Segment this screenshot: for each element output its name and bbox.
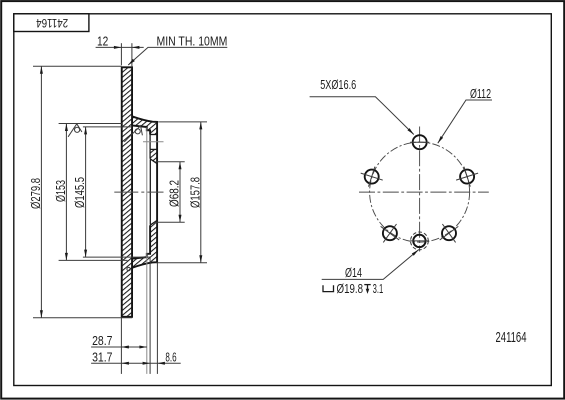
center hole bore silhouette — [149, 160, 151, 225]
center hole chamfer top — [150, 159, 157, 164]
bottom extension line ring face — [146, 128, 148, 374]
svg-text:Ø145.5: Ø145.5 — [72, 177, 87, 208]
hatch fill flange between bolt hole and center hole — [150, 149, 157, 163]
title box — [14, 14, 89, 32]
dim dia145.5 extension lines — [83, 126, 132, 128]
dim dia68.2 extension lines — [156, 161, 185, 163]
svg-text:241164: 241164 — [36, 16, 68, 30]
dim dia153 extension lines — [59, 123, 122, 125]
dim dia157.8 line — [200, 122, 202, 263]
bolt hole in flange bottom edge — [150, 148, 157, 150]
hat cone top underside and ring step — [132, 125, 150, 134]
hat cone bottom underside and ring step — [132, 225, 150, 259]
centerline of disc axis — [114, 191, 163, 193]
dim dia279.8 extension lines — [33, 65, 122, 67]
leader dia112 — [438, 100, 492, 143]
dim 31.7 and 8.6 line — [91, 362, 181, 364]
svg-text:Ø157.8: Ø157.8 — [187, 177, 202, 208]
extra hole dia14 — [410, 232, 429, 250]
counterbore symbol — [323, 285, 334, 291]
bottom extension line disc face — [120, 318, 122, 374]
MIN TH leader — [128, 47, 227, 65]
dim dia153 line — [65, 124, 67, 261]
bolt hole upper left — [361, 167, 383, 187]
bolt hole silhouette near wall — [149, 135, 151, 150]
leader 5X dia16.6 — [310, 97, 414, 135]
surface finish symbol on cone underside — [124, 126, 142, 142]
svg-text:8.6: 8.6 — [165, 350, 176, 365]
bottom extension line flange inner face — [149, 258, 151, 374]
svg-text:Ø153: Ø153 — [53, 180, 68, 202]
bolt hole in flange top edge — [150, 134, 157, 136]
svg-text:Ø14: Ø14 — [345, 265, 362, 280]
svg-text:Ø19.8: Ø19.8 — [337, 281, 364, 296]
svg-text:MIN TH. 10MM: MIN TH. 10MM — [157, 34, 228, 49]
horizontal centerline — [359, 191, 489, 193]
depth symbol — [364, 285, 370, 291]
hatch fill flange lower and bottom cone — [132, 220, 157, 268]
bolt hole lower right — [440, 224, 459, 242]
vertical centerline — [419, 127, 421, 252]
dim 28.7 line — [91, 346, 147, 348]
disc friction ring section outline — [122, 67, 132, 316]
svg-text:241164: 241164 — [496, 329, 527, 346]
surface finish symbol on dia153 line — [68, 124, 82, 137]
hatch fill disc bar — [122, 67, 132, 316]
svg-text:31.7: 31.7 — [92, 350, 112, 365]
small radius detail circle at bottom cone junction — [127, 267, 130, 270]
svg-text:5XØ16.6: 5XØ16.6 — [320, 77, 356, 92]
hat cone outer profile and flange outer face — [132, 116, 157, 267]
dim 12 extension lines — [120, 43, 122, 65]
bottom extension line flange outer face — [156, 263, 158, 374]
svg-text:Ø112: Ø112 — [470, 86, 491, 101]
center hole chamfer bottom — [150, 220, 157, 225]
hatch fill top cone and flange upper — [132, 116, 157, 134]
svg-text:3.1: 3.1 — [373, 281, 384, 296]
dim dia157.8 extension lines — [158, 121, 207, 123]
flange inner face segment above center hole — [149, 149, 151, 158]
dim 12 line — [96, 46, 144, 48]
bolt circle line in section — [143, 141, 164, 143]
dim dia68.2 line — [179, 162, 181, 222]
dim dia279.8 line — [40, 66, 42, 318]
svg-text:Ø279.8: Ø279.8 — [28, 178, 43, 209]
bolt hole lower left — [381, 224, 400, 242]
svg-text:28.7: 28.7 — [92, 333, 112, 348]
leader dia14 — [322, 250, 419, 280]
svg-text:12: 12 — [97, 33, 108, 48]
bolt hole top — [410, 135, 429, 149]
bolt hole upper right — [456, 167, 478, 187]
svg-text:Ø68.2: Ø68.2 — [166, 180, 181, 207]
bolt circle dia112 — [370, 142, 470, 242]
dim dia145.5 line — [85, 127, 87, 257]
